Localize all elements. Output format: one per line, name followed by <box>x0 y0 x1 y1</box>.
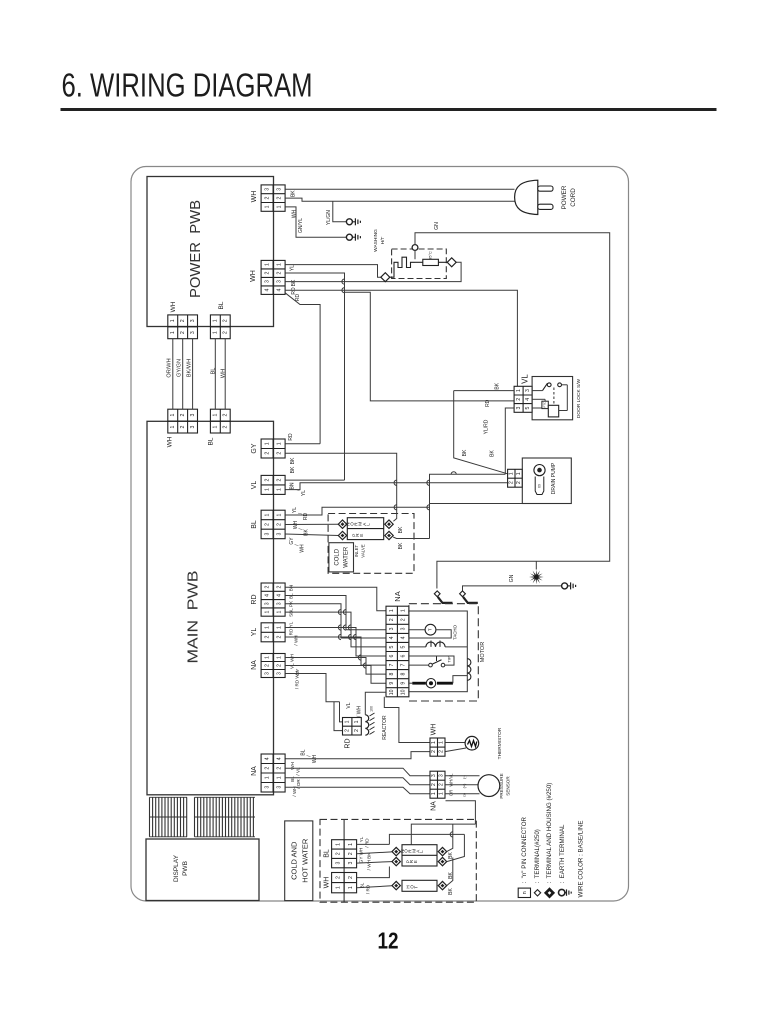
label RD door <box>485 399 491 407</box>
hop riser-b <box>427 480 430 485</box>
wire WH4-3 to heater right <box>285 262 461 281</box>
label BN rd <box>289 585 294 591</box>
svg-text:1: 1 <box>264 626 270 629</box>
label BK/WH <box>186 359 192 377</box>
wire BLb3 <box>357 862 392 864</box>
legend wire color <box>577 820 584 897</box>
label NA bottom <box>251 766 258 776</box>
door lock switch contacts <box>532 383 567 411</box>
hop bundle <box>343 625 346 630</box>
terminal diamond gn2 <box>460 591 466 597</box>
label VL <box>251 481 258 490</box>
label VL na <box>290 663 295 669</box>
bottom valve body NP <box>402 845 437 866</box>
svg-text:1: 1 <box>431 792 437 795</box>
terminal diamond heater right <box>447 258 456 267</box>
svg-text:3: 3 <box>276 280 282 283</box>
svg-text:1: 1 <box>348 843 354 846</box>
terminal diamond nmb-l <box>392 847 400 855</box>
wire YL/GN to earth <box>333 201 347 222</box>
svg-text:: TERMINAL AND HOUSING (#250): : TERMINAL AND HOUSING (#250) <box>546 783 553 884</box>
svg-text:T/P: T/P <box>447 656 452 663</box>
label RD <box>291 287 297 295</box>
wire NA4-4 to pressure <box>285 787 430 794</box>
motor armature <box>409 676 467 688</box>
svg-text:H/T: H/T <box>380 237 386 245</box>
svg-text:BK: BK <box>398 526 404 533</box>
svg-text:10: 10 <box>389 689 395 695</box>
svg-text:2: 2 <box>264 635 270 638</box>
svg-text:1: 1 <box>401 609 407 612</box>
label NORMAL <box>346 521 371 525</box>
wire BK to plug <box>285 188 514 190</box>
label T/P <box>447 656 452 663</box>
svg-text:2: 2 <box>335 852 341 855</box>
label GN mid <box>509 574 515 582</box>
connector RD <box>261 583 285 616</box>
bottom pwb edge line <box>343 819 345 902</box>
svg-text:YL: YL <box>359 836 364 842</box>
svg-text:INLET: INLET <box>354 544 359 557</box>
svg-text:HOT WATER: HOT WATER <box>300 838 309 883</box>
svg-text:2: 2 <box>401 618 407 621</box>
svg-text:/ WH BK: / WH BK <box>367 852 372 871</box>
wire VL1 BK <box>285 479 344 481</box>
wire GN bus <box>415 233 610 589</box>
wire motor bundle 4 <box>285 612 386 647</box>
svg-text:3: 3 <box>264 188 270 191</box>
svg-text:PTC: PTC <box>543 402 547 408</box>
wire motor bundle 1 <box>285 587 386 611</box>
hop bundle <box>348 625 351 630</box>
svg-text:WH: WH <box>430 724 437 736</box>
drain pump motor symbol <box>534 465 545 495</box>
svg-text:9: 9 <box>389 682 395 685</box>
svg-text:NORMAL: NORMAL <box>400 849 424 853</box>
label BK diag <box>489 450 495 457</box>
door lock body box <box>532 377 573 420</box>
svg-text:9: 9 <box>401 682 407 685</box>
svg-text:6: 6 <box>401 654 407 657</box>
hop bundle <box>358 655 361 660</box>
svg-text:POWER: POWER <box>561 185 568 209</box>
svg-text:2: 2 <box>439 750 445 753</box>
svg-text:2: 2 <box>264 197 270 200</box>
svg-text:1: 1 <box>276 656 282 659</box>
label RD conn <box>251 594 258 604</box>
terminal diamond nm-l <box>338 520 346 528</box>
wire OR/WH <box>172 339 174 410</box>
svg-text:/ WH: / WH <box>356 706 362 717</box>
svg-text:2: 2 <box>264 664 270 667</box>
title text <box>62 67 313 104</box>
terminal diamond pre-l <box>338 531 346 539</box>
svg-text:WH: WH <box>312 754 318 763</box>
svg-text:1: 1 <box>276 263 282 266</box>
label YL/RD vb <box>359 836 370 847</box>
svg-text:CORD: CORD <box>570 188 577 207</box>
svg-text:: "n" PIN CONNECTOR: : "n" PIN CONNECTOR <box>521 816 528 883</box>
svg-text:RD: RD <box>485 399 491 407</box>
svg-text:NA: NA <box>430 801 437 811</box>
reactor coil <box>365 706 374 735</box>
svg-text:GY: GY <box>251 443 258 453</box>
svg-text:TACHO: TACHO <box>453 624 458 640</box>
svg-text:1: 1 <box>335 886 341 889</box>
svg-text:1: 1 <box>335 843 341 846</box>
wire YL/RD riser <box>430 474 506 538</box>
wire motor bundle 6 <box>285 637 386 665</box>
svg-text:GN: GN <box>434 222 440 230</box>
hop r2 over r4 <box>342 288 345 293</box>
svg-text:BK: BK <box>462 449 468 456</box>
connector drain pump <box>508 469 523 487</box>
svg-text:REACTOR: REACTOR <box>382 715 388 740</box>
stator coil <box>409 641 467 647</box>
svg-text:PWB: PWB <box>182 861 189 876</box>
svg-text:10: 10 <box>401 689 407 695</box>
wire BN/YL to pump <box>285 483 508 490</box>
terminal diamond gn1 <box>434 591 440 597</box>
label WH <box>291 209 297 218</box>
svg-text:2: 2 <box>180 414 186 417</box>
label YL/GN <box>326 210 332 225</box>
label VL reactor <box>346 702 352 708</box>
svg-text:1: 1 <box>276 513 282 516</box>
svg-text:RD: RD <box>288 433 294 441</box>
hop bundle <box>363 663 366 668</box>
label BK <box>291 279 297 286</box>
svg-text:2: 2 <box>276 479 282 482</box>
svg-text:1: 1 <box>516 472 522 475</box>
wire GN/YL to earth <box>285 207 346 237</box>
label WH nb <box>292 786 297 796</box>
svg-text:1: 1 <box>276 442 282 445</box>
svg-text:MAIN PWB: MAIN PWB <box>184 571 201 664</box>
svg-text:3: 3 <box>389 627 395 630</box>
label BL lower <box>208 437 215 445</box>
svg-text:4: 4 <box>264 289 270 292</box>
wire motor bundle 2 <box>285 596 386 630</box>
wire WHb1 <box>357 867 390 878</box>
label BL/WH therm <box>300 749 318 763</box>
svg-text:BL: BL <box>323 849 330 858</box>
svg-text:5: 5 <box>389 645 395 648</box>
svg-text:6. WIRING DIAGRAM: 6. WIRING DIAGRAM <box>62 67 313 104</box>
power pwb box <box>147 177 274 327</box>
door lock PTC box <box>542 401 548 408</box>
label BL bottom <box>323 849 330 858</box>
connector door lock <box>514 386 532 412</box>
label NA pressure <box>430 801 437 811</box>
label NA motor <box>393 591 402 601</box>
label WH bottom <box>323 877 330 889</box>
terminal diamond nm-r <box>385 520 393 528</box>
label RD yl <box>289 628 294 635</box>
display pwb label <box>173 854 189 882</box>
label WH wire <box>220 369 226 378</box>
svg-text:3: 3 <box>264 672 270 675</box>
svg-text:BK: BK <box>398 542 404 549</box>
hop bundle <box>348 634 351 639</box>
inlet valve dashed box <box>328 514 414 574</box>
label DOOR LOCK S/W <box>576 378 582 418</box>
label WH/VL ps <box>449 773 454 787</box>
label BK gy2 <box>290 466 296 473</box>
thermistor <box>445 736 479 751</box>
svg-text:1: 1 <box>276 488 282 491</box>
svg-text:RD: RD <box>289 628 294 635</box>
hop y474 over bk <box>451 472 456 475</box>
svg-text:2: 2 <box>223 425 229 428</box>
label BK pre <box>398 542 404 549</box>
connector WH lower (main pwb top) <box>168 409 198 433</box>
wire pre-r BK <box>393 537 429 539</box>
svg-text:1: 1 <box>276 626 282 629</box>
svg-text:5: 5 <box>525 406 531 409</box>
label GY/WH vb <box>359 848 372 871</box>
hop bundle <box>353 634 356 639</box>
svg-text:GY: GY <box>289 537 295 545</box>
label RD gy <box>288 433 294 441</box>
svg-text:1: 1 <box>276 776 282 779</box>
terminal diamond preb-l <box>392 857 400 865</box>
wire reactor feed b <box>340 702 343 722</box>
blade terminal gn2 <box>463 597 478 603</box>
svg-text:3: 3 <box>431 774 437 777</box>
svg-text:2: 2 <box>345 729 351 732</box>
wire RD diagonal <box>285 293 320 444</box>
svg-text:1: 1 <box>213 414 219 417</box>
svg-text:4: 4 <box>264 594 270 597</box>
wire GY2 BK <box>285 453 397 521</box>
cold water box <box>329 543 354 572</box>
svg-text:OR: OR <box>449 790 454 796</box>
svg-text:WH: WH <box>299 544 305 553</box>
svg-text:NA: NA <box>251 766 258 776</box>
label WH na <box>290 654 295 662</box>
label WH4 <box>250 270 257 282</box>
svg-text:3: 3 <box>264 532 270 535</box>
svg-text:4: 4 <box>276 289 282 292</box>
svg-text:2: 2 <box>180 331 186 334</box>
svg-text:3: 3 <box>276 188 282 191</box>
label REACTOR <box>382 715 388 740</box>
svg-text:3: 3 <box>264 786 270 789</box>
svg-text:1: 1 <box>170 319 176 322</box>
connector WH3 (power pwb right) <box>261 185 285 211</box>
label BK <box>291 190 297 197</box>
connector NA bottom <box>261 754 285 792</box>
svg-text:MOTOR: MOTOR <box>480 642 486 662</box>
wire WH4-1 to heater <box>285 265 381 278</box>
svg-text:3: 3 <box>190 425 196 428</box>
svg-text:3: 3 <box>401 627 407 630</box>
svg-text:3: 3 <box>276 602 282 605</box>
svg-text:VL: VL <box>251 481 258 490</box>
wire BL1 YL/RD <box>285 507 429 515</box>
svg-text:YL: YL <box>301 490 307 496</box>
svg-text:YL: YL <box>292 507 298 513</box>
power cord plug <box>515 180 553 214</box>
wire RD branch to door lock <box>345 292 515 401</box>
label BL rd <box>289 593 294 599</box>
svg-text:BK: BK <box>448 852 454 859</box>
svg-text:VALVE: VALVE <box>361 544 366 558</box>
svg-text:2: 2 <box>276 635 282 638</box>
cold and hot water box <box>285 821 313 901</box>
svg-text:BK: BK <box>291 279 297 286</box>
bottom valve body HOT <box>402 880 437 891</box>
wire BK down to pump <box>454 391 508 474</box>
svg-text:POWER PWB: POWER PWB <box>187 200 204 298</box>
svg-text:95°C: 95°C <box>429 251 433 260</box>
hop riser-a <box>427 505 430 510</box>
label WH therm <box>430 724 437 736</box>
label HOT b <box>406 884 419 888</box>
svg-text:1: 1 <box>264 263 270 266</box>
connector thermistor WH <box>430 738 445 756</box>
svg-text:1: 1 <box>170 425 176 428</box>
wire NA3 to reactor <box>285 674 339 702</box>
condenser stem <box>535 561 537 569</box>
svg-text:2: 2 <box>276 452 282 455</box>
condenser starburst <box>529 570 544 585</box>
svg-text:WH: WH <box>251 191 258 203</box>
wire WH4-4 to door lock <box>285 290 517 386</box>
connector NA mid <box>261 654 285 678</box>
label YL/RD door <box>483 419 489 434</box>
svg-text:WH: WH <box>170 301 177 312</box>
wire top link <box>411 824 475 844</box>
label BK b1 <box>448 852 454 859</box>
label PK rd <box>289 600 294 607</box>
blade terminal gn1 <box>438 597 453 603</box>
svg-text:BK: BK <box>489 450 495 457</box>
label WH upper <box>170 301 177 312</box>
washing heater dashed box <box>392 249 447 279</box>
label RD reactor <box>344 738 351 748</box>
connector VL <box>261 475 285 494</box>
svg-text:NA: NA <box>251 660 258 670</box>
svg-text:WH: WH <box>167 436 174 447</box>
svg-text:BK: BK <box>290 457 296 464</box>
connector WH upper (power pwb bottom) <box>168 315 198 339</box>
svg-text:WH: WH <box>293 520 299 529</box>
svg-text:BN: BN <box>289 585 294 591</box>
svg-text:BK: BK <box>494 382 500 389</box>
svg-text:2: 2 <box>335 876 341 879</box>
svg-text:GN: GN <box>509 574 515 582</box>
svg-text:YL: YL <box>251 628 258 637</box>
label YL/RD bl <box>292 507 309 520</box>
wire reactor to motor 10 <box>365 692 386 715</box>
label GY <box>251 443 258 453</box>
power pwb label <box>187 200 204 298</box>
svg-text:1: 1 <box>170 414 176 417</box>
thermal fuse <box>415 251 447 265</box>
svg-text:1: 1 <box>213 425 219 428</box>
svg-text:60: 60 <box>537 484 541 488</box>
svg-text:DISPLAY: DISPLAY <box>173 854 180 882</box>
label OR/WH <box>166 358 172 377</box>
label BL upper <box>218 301 225 309</box>
wire earth line <box>463 586 562 592</box>
svg-text:2: 2 <box>431 750 437 753</box>
connector WH4 (power pwb right) <box>261 260 285 294</box>
wire WH4-2 down <box>285 273 344 480</box>
svg-text:8: 8 <box>401 673 407 676</box>
svg-text:VL: VL <box>521 374 530 384</box>
svg-text:4: 4 <box>276 594 282 597</box>
terminal diamond pre-r <box>385 531 393 539</box>
svg-text:4: 4 <box>401 636 407 639</box>
wire GY/GN <box>182 339 184 410</box>
wire YL/RD door lock <box>505 408 514 474</box>
svg-text:1: 1 <box>264 442 270 445</box>
svg-text:/ RD: / RD <box>366 884 371 894</box>
svg-text:/ RD: / RD <box>365 838 370 848</box>
label THERMISTOR <box>497 727 503 759</box>
label GY na <box>295 669 300 676</box>
label BK b2 <box>448 872 454 879</box>
svg-text:3: 3 <box>516 406 522 409</box>
svg-text:WIRE COLOR : BASE/LINE: WIRE COLOR : BASE/LINE <box>577 820 584 897</box>
earth terminal lower <box>346 234 360 241</box>
svg-text:2: 2 <box>509 481 515 484</box>
wire NA4-2 to pressure <box>285 768 430 776</box>
svg-text:BL: BL <box>300 749 306 755</box>
svg-text:THERMISTOR: THERMISTOR <box>497 727 503 759</box>
connector BL upper (power pwb bottom) <box>210 315 230 339</box>
door lock dashed actuator line <box>553 388 555 406</box>
wire motor bundle 8 <box>285 666 386 684</box>
label BK door <box>494 382 500 389</box>
svg-text:1: 1 <box>264 656 270 659</box>
svg-text:3: 3 <box>264 602 270 605</box>
svg-text:1: 1 <box>276 205 282 208</box>
wire WH to plug <box>285 198 514 201</box>
svg-text:2: 2 <box>348 876 354 879</box>
label BL/RD vb <box>360 882 371 894</box>
label TACHO <box>453 624 458 640</box>
connector motor NA <box>386 606 409 697</box>
terminal diamond preb-r <box>438 857 446 865</box>
svg-text:1: 1 <box>213 331 219 334</box>
legend n pin connector <box>518 816 530 897</box>
label YL conn <box>251 628 258 637</box>
svg-text:SENSOR: SENSOR <box>506 776 511 796</box>
svg-text:GY WH: GY WH <box>359 848 364 863</box>
wire BLb2 <box>357 852 392 854</box>
svg-text:2: 2 <box>516 398 522 401</box>
display pwb box <box>146 839 259 901</box>
rotor coil <box>467 659 471 681</box>
svg-text:1: 1 <box>170 331 176 334</box>
legend terminal and housing <box>544 783 555 899</box>
label RD/WH na <box>295 671 300 689</box>
label PRESSURE SENSOR <box>499 773 511 798</box>
hop bundle <box>338 634 341 639</box>
door lock inner wires <box>532 399 567 410</box>
terminal diamond heater left <box>381 273 390 282</box>
svg-text:NA: NA <box>393 591 402 601</box>
hop bundle <box>338 625 341 630</box>
svg-text:1: 1 <box>276 610 282 613</box>
svg-text:3: 3 <box>190 319 196 322</box>
svg-text:2: 2 <box>276 523 282 526</box>
svg-text:6: 6 <box>389 654 395 657</box>
